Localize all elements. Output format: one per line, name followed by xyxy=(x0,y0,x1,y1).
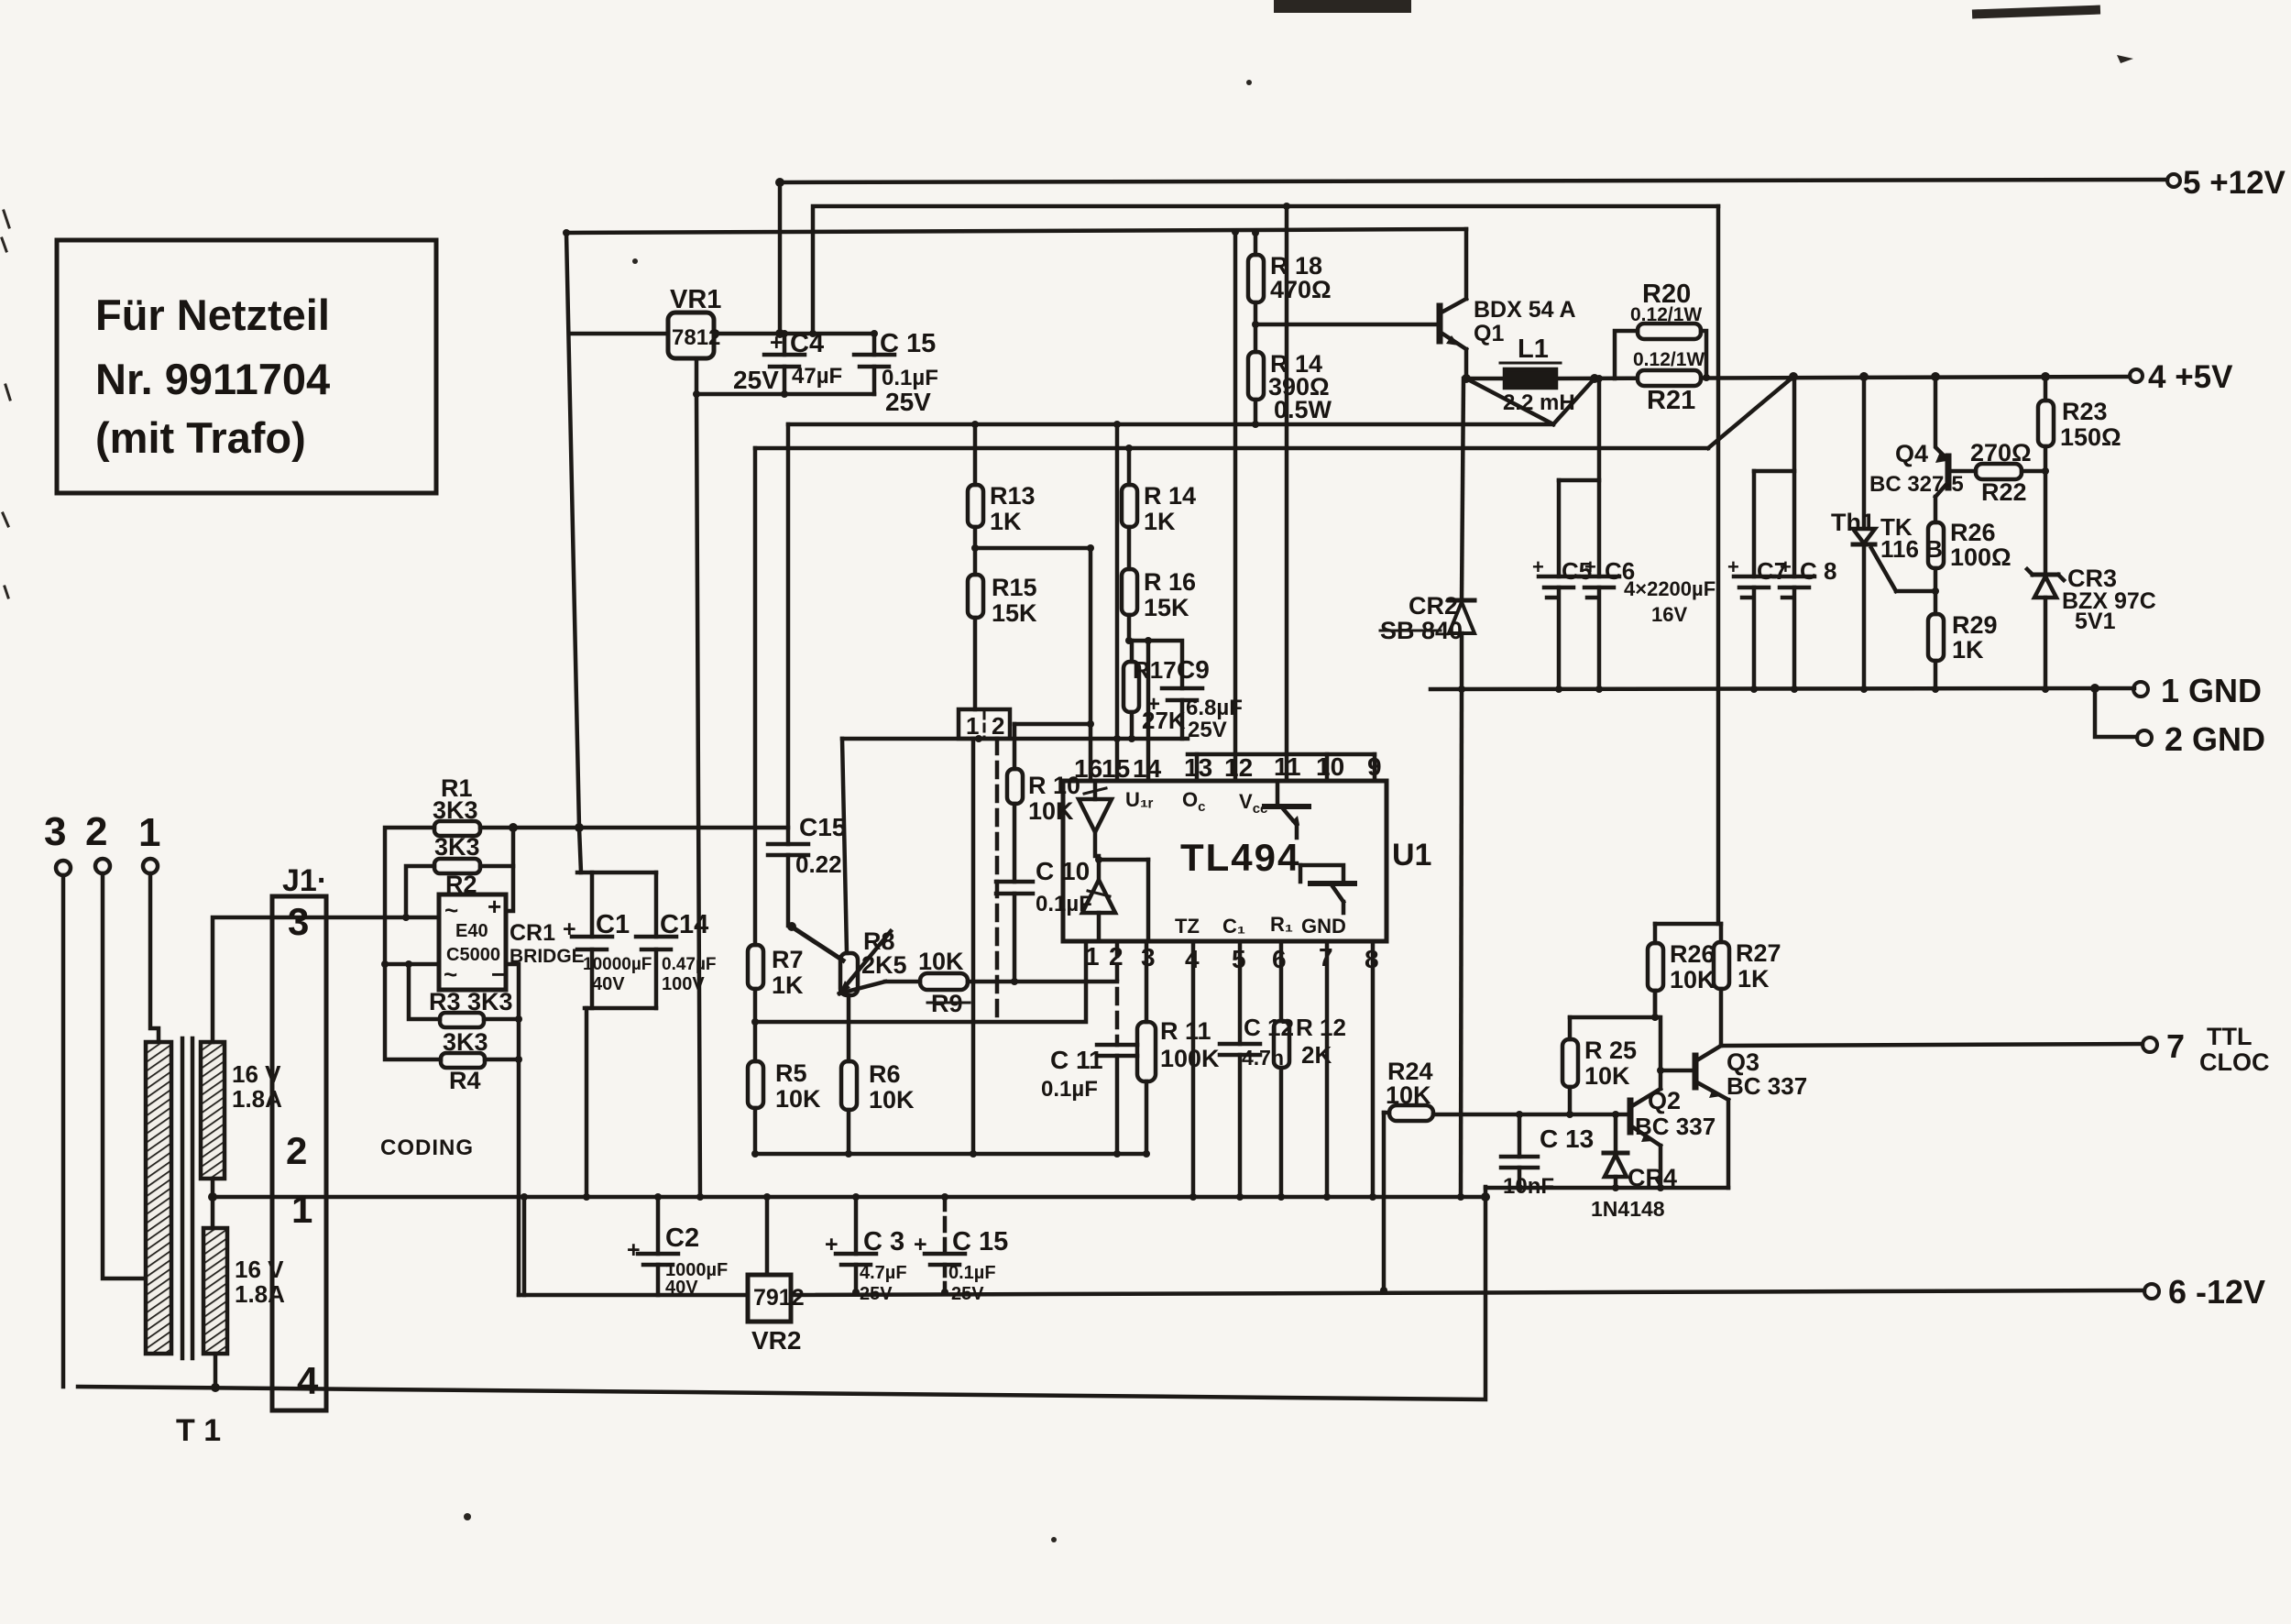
wire secondary bottom to rail xyxy=(214,1354,218,1388)
voltage regulator VR2 7912 xyxy=(748,1275,805,1355)
svg-text:15K: 15K xyxy=(1144,594,1189,621)
wire pot bottom to R6 xyxy=(847,995,851,1061)
svg-text:100K: 100K xyxy=(1160,1045,1220,1072)
transistor Q3 BC337 xyxy=(1695,1046,1807,1100)
wire C4 C15 bottom link xyxy=(696,392,874,397)
svg-text:2.2 mH: 2.2 mH xyxy=(1503,390,1575,415)
capacitor C1 10000uF 40V xyxy=(563,872,652,1008)
svg-text:C4: C4 xyxy=(790,329,824,358)
svg-text:3: 3 xyxy=(44,809,66,854)
svg-text:4: 4 xyxy=(297,1359,319,1402)
svg-text:10000µF: 10000µF xyxy=(583,955,652,974)
wire C1 bottom to 0V rail xyxy=(585,1008,589,1197)
resistor R18 470R xyxy=(1248,231,1332,324)
capacitor C9 6.8uF 25V xyxy=(1132,641,1243,742)
resistor R4 3K3 xyxy=(441,1028,488,1094)
wire VR1 output riser to +12V rail xyxy=(778,182,783,334)
wire pin4 drop xyxy=(1191,941,1196,1197)
wire reference bus (y 806) xyxy=(842,737,1188,741)
svg-text:+: + xyxy=(1727,555,1739,578)
svg-text:47µF: 47µF xyxy=(792,364,842,389)
svg-text:R22: R22 xyxy=(1981,478,2027,506)
svg-text:0.12/1W: 0.12/1W xyxy=(1630,304,1702,325)
wire sense line B (y 489) xyxy=(755,446,1708,451)
svg-text:R17: R17 xyxy=(1133,656,1177,684)
capacitor C14 0.47uF 100V xyxy=(636,872,717,1008)
capacitor C10 0.1uF xyxy=(996,804,1092,982)
wire CR2 column to 0V rail xyxy=(1461,689,1462,1197)
svg-text:270Ω: 270Ω xyxy=(1970,439,2032,466)
transistor Q2 BC337 xyxy=(1630,1087,1716,1146)
wire C5 C6 top link xyxy=(1559,478,1599,483)
wire pin15 stub xyxy=(1115,424,1120,781)
svg-text:2K5: 2K5 xyxy=(861,951,907,979)
wire ground bus (y 1259) xyxy=(755,1152,1146,1157)
svg-text:R 10: R 10 xyxy=(1028,772,1080,799)
svg-text:1K: 1K xyxy=(772,971,804,999)
svg-text:1N4148: 1N4148 xyxy=(1591,1197,1665,1221)
thyristor Th1 TK116B xyxy=(1831,377,1943,689)
svg-text:+: + xyxy=(1584,555,1596,578)
svg-text:10K: 10K xyxy=(1584,1062,1630,1090)
svg-text:1K: 1K xyxy=(1952,636,1984,664)
svg-text:40V: 40V xyxy=(592,974,625,994)
transformer T1 secondary winding upper 16V 1.8A xyxy=(201,1042,282,1179)
svg-text:10K: 10K xyxy=(918,948,964,975)
wire Q3 emitter drop xyxy=(1726,1100,1731,1188)
svg-text:0.1µF: 0.1µF xyxy=(1041,1077,1098,1102)
terminal 5 +12V xyxy=(2167,165,2286,201)
resistor R29 1K xyxy=(1928,611,1998,689)
op-amp error amplifier 1 (internal) xyxy=(1079,781,1112,856)
svg-text:C 15: C 15 xyxy=(880,329,936,358)
svg-text:16V: 16V xyxy=(1651,603,1687,626)
svg-text:C 8: C 8 xyxy=(1800,557,1836,585)
svg-text:R29: R29 xyxy=(1952,611,1998,639)
svg-text:+: + xyxy=(1532,555,1544,578)
svg-text:R13: R13 xyxy=(990,482,1036,510)
svg-text:2 GND: 2 GND xyxy=(2165,720,2265,758)
svg-text:1: 1 xyxy=(291,1188,312,1231)
svg-text:1.8A: 1.8A xyxy=(235,1280,285,1308)
svg-text:2: 2 xyxy=(992,712,1004,740)
transistor Q4 BC327 xyxy=(1869,377,1976,522)
svg-text:150Ω: 150Ω xyxy=(2060,423,2121,451)
bridge rectifier CR1 xyxy=(439,893,585,990)
svg-text:Oc: Oc xyxy=(1182,788,1205,815)
svg-text:1: 1 xyxy=(138,810,160,855)
wire +5V rail after L1 xyxy=(1556,377,2130,379)
wire R26 R27 supply riser xyxy=(1716,206,1721,924)
svg-text:TTL: TTL xyxy=(2207,1023,2252,1050)
resistor R12 2K2 xyxy=(1274,941,1346,1197)
svg-text:Q4: Q4 xyxy=(1895,440,1928,467)
resistor R26 100R (crowbar) xyxy=(1928,519,2011,614)
resistor R9 10K (horizontal) xyxy=(839,948,1117,1017)
svg-text:1 GND: 1 GND xyxy=(2161,672,2262,709)
svg-text:2: 2 xyxy=(286,1129,307,1172)
svg-text:15K: 15K xyxy=(992,599,1037,627)
resistor R22 270R xyxy=(1970,439,2045,506)
svg-text:U₁ᵣ: U₁ᵣ xyxy=(1125,788,1154,811)
wire C1 C14 bottom link xyxy=(585,1006,656,1011)
resistor R23 150R xyxy=(2038,377,2121,575)
svg-text:GND: GND xyxy=(1301,915,1346,938)
svg-text:R26: R26 xyxy=(1670,940,1716,968)
pin numbers top row 16..9 xyxy=(1074,752,1382,783)
resistor R6 10K xyxy=(841,1060,915,1154)
wire R3 R4 right bracket to bridge minus xyxy=(506,964,519,1295)
capacitor C15 0.1uF 25V (near VR2) xyxy=(914,1197,1008,1304)
capacitor C8 2200uF xyxy=(1774,377,1836,689)
wire pin11 riser to +12V aux xyxy=(1285,206,1289,781)
label 4x2200uF 16V xyxy=(1624,577,1716,626)
svg-text:C 3: C 3 xyxy=(863,1227,904,1256)
svg-text:1.8A: 1.8A xyxy=(232,1085,282,1113)
wire secondary centre tap junction xyxy=(211,1179,215,1228)
svg-text:R21: R21 xyxy=(1647,386,1695,415)
voltage regulator VR1 7812 xyxy=(668,285,721,358)
wire terminal3 to bottom rail xyxy=(61,875,66,1387)
svg-text:5V1: 5V1 xyxy=(2075,609,2116,634)
wire R4 right stub xyxy=(485,1058,519,1062)
svg-text:0.1µF: 0.1µF xyxy=(882,366,938,390)
svg-text:J1·: J1· xyxy=(282,863,327,898)
wire pin10 stub xyxy=(1325,754,1330,781)
wire clock cluster ground bus xyxy=(1485,1186,1728,1191)
wire R1 left bracket to bridge ac2 xyxy=(385,828,441,1059)
wire raw positive drop to C1 (V1) xyxy=(566,233,581,872)
svg-text:R27: R27 xyxy=(1736,939,1781,967)
wire pin12 Vcc riser xyxy=(1233,231,1238,781)
capacitor C7 2200uF xyxy=(1727,471,1787,689)
capacitor C11 0.1uF xyxy=(1041,1045,1137,1154)
resistor R1 3K3 xyxy=(433,774,480,836)
svg-text:R7: R7 xyxy=(772,946,804,973)
svg-text:+: + xyxy=(627,1237,641,1263)
svg-text:BRIDGE: BRIDGE xyxy=(510,946,585,967)
svg-text:1K: 1K xyxy=(1144,508,1176,535)
svg-text:25V: 25V xyxy=(1188,718,1227,742)
resistor R16 15K xyxy=(1122,568,1196,662)
svg-text:R26: R26 xyxy=(1950,519,1996,546)
svg-text:25V: 25V xyxy=(733,366,779,394)
wire GND to terminal 1 xyxy=(2095,686,2134,691)
svg-text:TL494: TL494 xyxy=(1180,836,1300,879)
wire Q2 base line xyxy=(1433,1113,1630,1117)
input terminal 2 xyxy=(85,809,110,873)
svg-text:−: − xyxy=(491,960,505,988)
wire C7 C8 top link xyxy=(1754,469,1794,474)
svg-text:(mit Trafo): (mit Trafo) xyxy=(95,413,306,462)
svg-text:5 +12V: 5 +12V xyxy=(2183,165,2286,201)
wire pin7 GND drop xyxy=(1325,941,1330,1197)
svg-text:+: + xyxy=(914,1232,927,1257)
terminal 7 TTL CLOCK xyxy=(2143,1023,2270,1076)
wire R3 right stub xyxy=(484,1017,519,1022)
svg-text:+: + xyxy=(825,1232,839,1257)
svg-text:R 14: R 14 xyxy=(1144,482,1196,510)
wire pin13 stub xyxy=(1195,754,1200,781)
input terminal 3 xyxy=(44,809,71,875)
resistor R14 1K (divider) xyxy=(1122,448,1196,569)
wire 0V tap to C2 line xyxy=(522,1197,527,1295)
svg-text:R 16: R 16 xyxy=(1144,568,1196,596)
svg-text:U1: U1 xyxy=(1392,838,1431,872)
svg-text:3K3: 3K3 xyxy=(434,833,480,861)
svg-text:CLOC: CLOC xyxy=(2199,1048,2270,1076)
svg-text:0.47µF: 0.47µF xyxy=(662,955,717,974)
svg-text:10K: 10K xyxy=(1028,797,1074,825)
capacitor C5 2200uF xyxy=(1532,480,1592,689)
svg-text:C₁: C₁ xyxy=(1222,915,1245,938)
svg-text:7912: 7912 xyxy=(753,1285,805,1311)
svg-text:C15: C15 xyxy=(799,813,846,841)
transformer T1 secondary winding lower 16V 1.8A xyxy=(203,1228,285,1354)
wire +5V rail xyxy=(1466,377,1505,381)
wire Q1 collector from raw rail xyxy=(1464,229,1469,299)
wire +12V aux line (y 225) xyxy=(813,206,1718,334)
svg-text:C 10: C 10 xyxy=(1036,857,1090,885)
resistor R25 10K xyxy=(1562,1017,1637,1114)
svg-text:40V: 40V xyxy=(665,1278,698,1298)
svg-text:10: 10 xyxy=(1316,752,1344,781)
svg-text:BDX 54 A: BDX 54 A xyxy=(1474,297,1576,323)
wire VR1 output to caps xyxy=(714,332,874,336)
resistor R21 0.12/1W xyxy=(1633,349,1705,415)
svg-text:0.5W: 0.5W xyxy=(1274,396,1332,423)
svg-text:BC 337: BC 337 xyxy=(1726,1072,1807,1100)
transistor internal T1 xyxy=(1265,781,1309,838)
capacitor C15 0.1uF 25V (near VR1) xyxy=(854,329,938,416)
terminal 2 GND xyxy=(2137,720,2265,758)
resistor R20 0.12/1W xyxy=(1615,280,1706,379)
wire 0V mid rail (y 1306) xyxy=(213,1195,1485,1200)
wire reference bus right ledge (y 823) xyxy=(1188,752,1375,757)
svg-text:R 12: R 12 xyxy=(1296,1014,1346,1041)
wire pin1 to divider node xyxy=(755,941,1086,1022)
resistor R5 10K xyxy=(748,989,821,1154)
wire Q1 base xyxy=(1255,323,1440,327)
resistor R2 3K3 xyxy=(434,833,480,898)
svg-text:0.22: 0.22 xyxy=(795,850,842,878)
capacitor C4 47uF 25V xyxy=(733,329,842,394)
transformer T1 primary winding xyxy=(146,1042,171,1354)
svg-text:4×2200µF: 4×2200µF xyxy=(1624,577,1716,600)
capacitor C2 1000uF 40V xyxy=(627,1197,728,1298)
svg-text:R15: R15 xyxy=(992,574,1037,601)
resistor R26 10K xyxy=(1648,924,1716,1017)
svg-text:C14: C14 xyxy=(660,910,708,939)
input terminal 1 xyxy=(138,810,160,873)
svg-text:TZ: TZ xyxy=(1175,915,1200,938)
potentiometer R8 2K5 xyxy=(787,922,907,995)
svg-text:BC 327-5: BC 327-5 xyxy=(1869,472,1964,497)
wire GND to terminal 2 xyxy=(2095,688,2137,737)
svg-text:4 +5V: 4 +5V xyxy=(2148,359,2233,395)
svg-text:0.1µF: 0.1µF xyxy=(1036,892,1092,916)
svg-text:3K3: 3K3 xyxy=(443,1028,488,1056)
svg-text:Vcc: Vcc xyxy=(1239,790,1267,817)
diagonal A to +5V at L1 xyxy=(1553,379,1595,424)
wire bottom rail xyxy=(78,1187,1485,1399)
svg-text:1K: 1K xyxy=(990,508,1022,535)
diode CR2 SB840 xyxy=(1380,379,1474,689)
inductor L1 2.2mH xyxy=(1500,335,1575,415)
svg-text:16 V: 16 V xyxy=(235,1256,284,1283)
svg-text:R5: R5 xyxy=(775,1059,807,1087)
wire bridge minus feed to C2 line xyxy=(519,1293,748,1298)
terminal 6 -12V xyxy=(2144,1273,2265,1311)
svg-text:Q2: Q2 xyxy=(1648,1087,1681,1114)
transistor Q1 BDX54A xyxy=(1440,297,1576,349)
svg-text:R23: R23 xyxy=(2062,398,2108,425)
wire C1 C14 top link xyxy=(577,871,656,875)
resistor R13 1K xyxy=(968,424,1036,548)
svg-text:12: 12 xyxy=(1224,753,1253,782)
svg-text:2: 2 xyxy=(85,809,107,854)
svg-text:116 B: 116 B xyxy=(1880,535,1943,563)
svg-text:+: + xyxy=(1780,555,1792,578)
svg-text:C 12: C 12 xyxy=(1244,1014,1294,1041)
svg-text:C 11: C 11 xyxy=(1050,1046,1103,1074)
capacitor C15 0.22 (feedback) xyxy=(768,424,846,926)
wire R25 top to Q2 collector node xyxy=(1570,1015,1659,1020)
capacitor C12 4.7n xyxy=(1220,941,1294,1197)
wire R13 R15 node to pin16 xyxy=(975,548,1091,781)
wire Q2 emitter drop xyxy=(1659,1146,1663,1188)
wire Q2 collector to Q3 base xyxy=(1661,1069,1695,1073)
svg-text:7812: 7812 xyxy=(672,325,720,350)
connector J1 xyxy=(272,863,327,1410)
op-amp U1 IC box TL494 xyxy=(1063,781,1431,941)
resistor R15 15K xyxy=(968,548,1037,709)
svg-text:0.12/1W: 0.12/1W xyxy=(1633,349,1705,370)
resistor R11 100K xyxy=(1137,941,1220,1154)
terminal 1 GND xyxy=(2133,672,2262,709)
svg-text:Q1: Q1 xyxy=(1474,321,1504,346)
wire raw positive node (y 903) xyxy=(513,826,788,830)
svg-text:C 15: C 15 xyxy=(952,1227,1008,1256)
wire R2 left bracket to J1 pin3 line xyxy=(406,866,434,917)
wire sense 2 dashed drop xyxy=(995,739,1000,1022)
svg-text:T 1: T 1 xyxy=(176,1413,221,1448)
capacitor C6 2200uF xyxy=(1579,379,1635,689)
svg-text:25V: 25V xyxy=(951,1284,984,1304)
svg-text:E40: E40 xyxy=(455,921,488,941)
resistor R7 1K xyxy=(748,448,804,999)
svg-text:Für Netzteil: Für Netzteil xyxy=(95,291,330,339)
wire raw DC to VR1 input xyxy=(570,332,668,336)
svg-text:+: + xyxy=(488,893,501,920)
resistor R27 1K xyxy=(1714,924,1781,1046)
op-amp error amplifier 2 (internal) xyxy=(1082,856,1148,941)
terminal 4 +5V xyxy=(2130,359,2233,395)
svg-text:R6: R6 xyxy=(869,1060,901,1088)
wire R10 to pin16 xyxy=(1014,722,1091,727)
svg-text:10K: 10K xyxy=(1670,966,1716,993)
resistor R17 27K xyxy=(1124,656,1186,739)
svg-text:R 11: R 11 xyxy=(1160,1017,1211,1045)
svg-text:CODING: CODING xyxy=(380,1136,474,1160)
remote sense connector 1-2 xyxy=(959,709,1010,740)
wire GND rail xyxy=(1431,688,2095,689)
svg-text:C1: C1 xyxy=(596,910,630,939)
diagonal B to +5V rail xyxy=(1708,377,1793,448)
svg-text:C 13: C 13 xyxy=(1540,1125,1594,1153)
wire terminal2 to primary xyxy=(103,873,146,1278)
svg-text:25V: 25V xyxy=(860,1284,893,1304)
wire pin2 dashed stub xyxy=(1115,941,1120,1045)
svg-text:C9: C9 xyxy=(1177,655,1210,684)
wire pin8 drop xyxy=(1371,941,1376,1197)
svg-text:Th1: Th1 xyxy=(1831,509,1875,536)
wire reference bus drop to potentiometer xyxy=(842,739,847,953)
svg-text:6 -12V: 6 -12V xyxy=(2168,1273,2265,1311)
transformer T1 core xyxy=(182,1038,192,1358)
wire +12V rail xyxy=(780,180,2167,182)
resistor R24 10K xyxy=(1384,1058,1433,1290)
svg-text:R4: R4 xyxy=(449,1067,481,1094)
svg-text:VR2: VR2 xyxy=(751,1326,801,1355)
svg-text:+: + xyxy=(563,916,576,942)
wire R2 right stub xyxy=(480,864,513,869)
wire sense 1 drop xyxy=(971,739,976,1154)
svg-text:3K3: 3K3 xyxy=(433,796,478,824)
wire pin9 stub xyxy=(1373,754,1377,781)
wire R1 R2 right bracket to bridge plus xyxy=(480,828,513,911)
transistor internal T2 xyxy=(1300,865,1354,913)
wire Q1 emitter to +5V node xyxy=(1464,349,1469,379)
svg-text:CR1: CR1 xyxy=(510,920,555,946)
svg-text:~: ~ xyxy=(444,960,457,988)
svg-text:470Ω: 470Ω xyxy=(1270,276,1332,303)
svg-text:Nr. 9911704: Nr. 9911704 xyxy=(95,355,330,403)
svg-text:10K: 10K xyxy=(869,1086,915,1114)
title box xyxy=(57,240,436,493)
resistor R3 3K3 xyxy=(429,988,513,1027)
wire bridge ac2 lower xyxy=(385,962,439,967)
capacitor C13 10nF xyxy=(1501,1114,1594,1199)
wire raw DC rail (y 253) xyxy=(566,229,1466,233)
wire secondary top to J1 pin3 line xyxy=(213,917,439,1042)
wire Q2 collector riser xyxy=(1655,991,1661,1089)
wire pin14 stub xyxy=(1146,641,1151,781)
wire sense line A (y 463) xyxy=(788,422,1553,427)
zener diode CR3 BZX97C 5V1 xyxy=(2027,565,2156,689)
svg-text:10K: 10K xyxy=(1386,1081,1431,1109)
svg-text:10K: 10K xyxy=(775,1085,821,1113)
wire VR1 ground pin long drop to 0V rail xyxy=(696,358,700,1197)
svg-text:0.1µF: 0.1µF xyxy=(948,1263,996,1283)
svg-text:BC 337: BC 337 xyxy=(1635,1113,1716,1140)
capacitor C3 4.7uF 25V xyxy=(825,1197,907,1304)
wire -12V line xyxy=(791,1290,2144,1295)
svg-text:1K: 1K xyxy=(1737,965,1770,993)
wire R26 R27 top bracket xyxy=(1655,922,1721,927)
svg-text:R₁: R₁ xyxy=(1270,913,1293,936)
resistor R10 10K xyxy=(1007,724,1080,825)
resistor R14 390R 0.5W xyxy=(1248,324,1332,424)
svg-text:VR1: VR1 xyxy=(670,285,721,314)
svg-text:100Ω: 100Ω xyxy=(1950,543,2011,571)
pin numbers bottom row 1..8 xyxy=(1085,942,1379,973)
svg-text:R 25: R 25 xyxy=(1584,1037,1637,1064)
svg-text:~: ~ xyxy=(444,896,458,924)
svg-text:CR2: CR2 xyxy=(1409,592,1458,620)
svg-text:25V: 25V xyxy=(885,388,931,416)
wire R3 left bracket xyxy=(409,964,440,1019)
